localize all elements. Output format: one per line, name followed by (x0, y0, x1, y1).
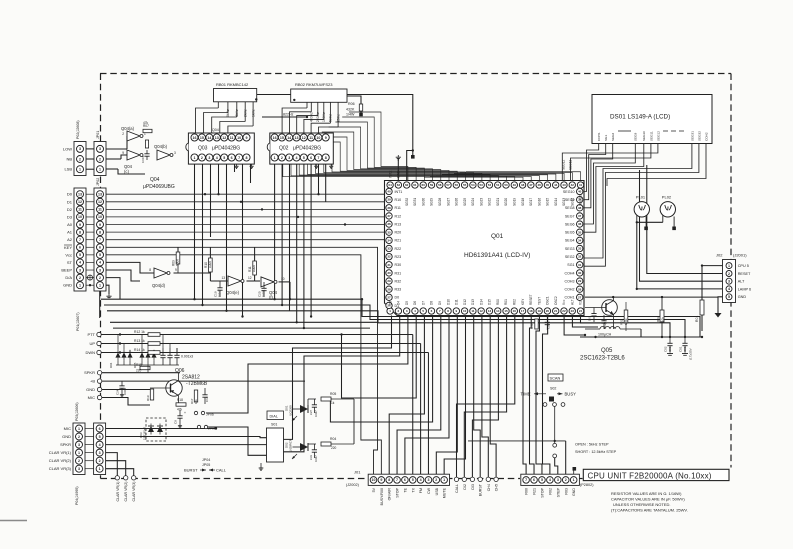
svg-text:12: 12 (480, 309, 484, 313)
svg-text:1: 1 (99, 283, 101, 287)
connector J02 (J2001) (716, 253, 747, 303)
wire J02 pin2 RESET riser (647, 165, 723, 274)
svg-text:45: 45 (546, 183, 550, 187)
svg-text:35: 35 (387, 230, 391, 234)
svg-text:DI3: DI3 (471, 484, 475, 490)
svg-text:10k: 10k (661, 317, 665, 322)
svg-text:32: 32 (578, 255, 582, 259)
resistor R05 1k (321, 392, 336, 405)
svg-text:57: 57 (446, 183, 450, 187)
svg-text:51: 51 (496, 183, 500, 187)
wire MIC row right (106, 427, 217, 429)
svg-text:D13: D13 (471, 299, 475, 305)
IC Q02 uPD4042BG (267, 133, 333, 164)
svg-text:29: 29 (387, 279, 391, 283)
svg-text:3: 3 (99, 147, 101, 151)
svg-text:1SS181x2: 1SS181x2 (143, 427, 147, 440)
svg-text:7: 7 (238, 156, 240, 160)
svg-text:J02: J02 (716, 253, 723, 258)
wire Q02 bottom pin drops (275, 161, 326, 328)
svg-text:44: 44 (554, 183, 558, 187)
wire RB01 output to INT2 node (257, 95, 415, 159)
svg-text:BURST: BURST (479, 483, 483, 496)
svg-text:+: + (184, 411, 186, 415)
svg-text:STOP: STOP (396, 487, 400, 497)
wire DS01 right pins down to Q01 COH pins (584, 144, 699, 267)
svg-text:Vcc: Vcc (65, 252, 72, 257)
svg-text:1: 1 (78, 427, 80, 431)
svg-text:D05: D05 (133, 362, 137, 368)
svg-text:BURST: BURST (184, 468, 198, 473)
label SEG12 SEG11 right top (562, 159, 573, 170)
wire LED D01 rail (308, 399, 354, 444)
svg-text:R18: R18 (177, 398, 183, 402)
svg-text:SG20: SG20 (504, 198, 508, 206)
resistor network RB01 RKMBC142 (214, 82, 258, 117)
svg-text:9: 9 (246, 136, 248, 140)
svg-text:13: 13 (78, 192, 82, 196)
svg-text:D5: D5 (405, 301, 409, 305)
svg-text:MIC: MIC (88, 395, 95, 400)
svg-text:LOW: LOW (63, 146, 72, 151)
svg-text:14: 14 (287, 136, 291, 140)
svg-text:58: 58 (438, 183, 442, 187)
svg-text:STEP: STEP (556, 487, 560, 497)
svg-text:RESISTOR VALUES ARE IN Ω. 1/16: RESISTOR VALUES ARE IN Ω. 1/16W) (611, 491, 682, 496)
svg-text:Q03: Q03 (198, 146, 208, 152)
svg-text:COH3: COH3 (565, 279, 575, 283)
resistor R07 47k (143, 121, 152, 133)
svg-text:55: 55 (463, 183, 467, 187)
svg-text:LSB: LSB (64, 167, 72, 172)
svg-text:COH2: COH2 (704, 132, 708, 141)
wire Q03 bottom pin drops (195, 161, 251, 317)
inverter Q04(f) (261, 277, 285, 300)
svg-text:ALT: ALT (738, 280, 745, 284)
connector P03 (J2606) left column (73, 402, 85, 474)
label Q04 uPD4069UBG (143, 177, 175, 190)
svg-text:100k: 100k (176, 259, 180, 266)
wire DS01 left pins down to Q01 right SEG pins (584, 144, 613, 208)
svg-text:TEST: TEST (537, 297, 541, 305)
svg-text:ON/AIR: ON/AIR (388, 488, 392, 501)
testpoint D/A row (88, 275, 93, 286)
wire below P01 (99, 291, 101, 318)
svg-text:R02: R02 (548, 488, 552, 495)
labels J01 signals (372, 487, 447, 505)
wire SPKR row (102, 372, 180, 374)
node CLAR VR(2) bottom (124, 476, 129, 502)
svg-text:100k: 100k (208, 261, 212, 268)
svg-text:CPU UNIT F2B20000A (No.10xx): CPU UNIT F2B20000A (No.10xx) (588, 471, 712, 480)
capacitor C02 0.001 (664, 337, 674, 355)
svg-text:3: 3 (99, 451, 101, 455)
node CALL (454, 477, 459, 493)
svg-text:12: 12 (302, 136, 306, 140)
svg-text:1: 1 (99, 167, 101, 171)
wire +B row (102, 380, 305, 382)
svg-text:18: 18 (529, 309, 533, 313)
svg-text:SPKR: SPKR (60, 442, 71, 447)
resistor R17 10k (190, 390, 198, 404)
svg-text:11: 11 (309, 136, 313, 140)
wire long row D (y322) (110, 321, 378, 323)
svg-text:100k: 100k (252, 265, 256, 272)
svg-text:10: 10 (463, 309, 467, 313)
svg-text:INT2: INT2 (388, 171, 392, 178)
svg-text:R13: R13 (395, 222, 402, 226)
transistor Q06 2SA812 (150, 368, 208, 404)
svg-text:R03: R03 (564, 488, 568, 495)
svg-text:GND: GND (738, 295, 747, 299)
svg-text:29: 29 (578, 279, 582, 283)
svg-text:RESET: RESET (529, 294, 533, 305)
wire J02 pin1 CPU5 with R01 (702, 266, 723, 331)
svg-text:Q04(e): Q04(e) (226, 290, 240, 295)
capacitor C16 0.01 (202, 388, 209, 404)
svg-text:R04: R04 (330, 437, 336, 441)
svg-text:2: 2 (99, 459, 101, 463)
wire JP06 link (206, 412, 240, 414)
svg-text:49: 49 (513, 183, 517, 187)
svg-text:8: 8 (79, 230, 81, 234)
svg-text:(J2001): (J2001) (733, 253, 747, 258)
labels P01 signal names (61, 192, 72, 288)
svg-text:KEY: KEY (64, 245, 72, 250)
svg-text:23: 23 (571, 309, 575, 313)
svg-text:R05: R05 (330, 392, 336, 396)
svg-text:4: 4 (216, 156, 218, 160)
capacitor C24 0.001 (116, 381, 128, 395)
wire Vcc row staircase to J01 (106, 255, 381, 474)
svg-text:13: 13 (488, 309, 492, 313)
labels J02 CPU5 RESET ALT LAMP GND (738, 264, 751, 299)
node DI3 (470, 477, 475, 489)
svg-text:30: 30 (387, 271, 391, 275)
svg-text:8: 8 (149, 268, 151, 272)
svg-text:R33: R33 (395, 288, 402, 292)
capacitor C03 0.001 (679, 337, 689, 355)
svg-text:C01: C01 (679, 346, 683, 352)
connector P2802 (521, 474, 580, 485)
wire P02 LOW NB LSB rows to Q04 gates (106, 136, 145, 174)
svg-text:D8: D8 (430, 301, 434, 305)
svg-text:48: 48 (521, 183, 525, 187)
svg-text:INT1: INT1 (395, 190, 403, 194)
svg-text:SHORT : 12.5kHz STEP: SHORT : 12.5kHz STEP (575, 450, 617, 454)
svg-text:1: 1 (274, 156, 276, 160)
svg-text:Q01: Q01 (491, 233, 504, 240)
svg-text:C02: C02 (664, 346, 668, 352)
svg-text:Q04(d): Q04(d) (152, 283, 166, 288)
svg-text:GND: GND (63, 283, 72, 288)
ground Q03 pins (234, 165, 253, 169)
svg-text:SG16: SG16 (537, 198, 541, 206)
svg-text:37: 37 (387, 214, 391, 218)
svg-text:(T):CAPACITORS ARE TANTALUM. 2: (T):CAPACITORS ARE TANTALUM. 25WV. (611, 508, 688, 513)
ground C24 (120, 393, 124, 397)
node CLAR VR(3) bottom (132, 476, 137, 502)
node CLAR VR(1) bottom (115, 476, 120, 502)
svg-text:5: 5 (99, 253, 101, 257)
svg-text:5: 5 (79, 253, 81, 257)
svg-text:42: 42 (571, 183, 575, 187)
ground J02 GND (715, 313, 722, 318)
svg-text:(f): (f) (269, 295, 274, 300)
svg-text:2: 2 (201, 156, 203, 160)
svg-text:2kHz: 2kHz (243, 109, 247, 117)
capacitor C27 0.047 (309, 399, 318, 417)
node BURST (478, 477, 483, 496)
svg-text:Q04(a): Q04(a) (121, 126, 135, 131)
svg-text:1: 1 (194, 156, 196, 160)
svg-text:CLAR VR(1): CLAR VR(1) (49, 450, 72, 455)
svg-text:52: 52 (488, 183, 492, 187)
svg-text:R21: R21 (533, 488, 537, 495)
svg-text:11: 11 (98, 208, 102, 212)
label 822Hz (283, 113, 294, 117)
svg-text:100Hz: 100Hz (322, 112, 326, 122)
lamp PL02 (660, 195, 676, 231)
svg-text:D3: D3 (67, 214, 73, 219)
svg-text:2: 2 (78, 459, 80, 463)
wire long row B (y305) (104, 305, 685, 337)
svg-text:SG15: SG15 (546, 198, 550, 206)
diode pack D03 1SS181 (dashed) (139, 418, 166, 441)
wire LED D02 rail (308, 443, 354, 445)
svg-text:0.001x3: 0.001x3 (181, 355, 193, 359)
svg-text:4: 4 (99, 261, 101, 265)
svg-text:36: 36 (578, 222, 582, 226)
jumper labels JP04 JP05 BURST CALL (184, 458, 227, 473)
svg-text:100μCH: 100μCH (598, 333, 612, 337)
svg-text:3: 3 (79, 268, 81, 272)
svg-text:Q04(b): Q04(b) (154, 144, 168, 149)
svg-text:D11: D11 (455, 299, 459, 305)
node CH5 (494, 477, 499, 491)
svg-text:31: 31 (578, 263, 582, 267)
svg-text:RESET: RESET (738, 272, 751, 276)
svg-text:43: 43 (562, 183, 566, 187)
svg-text:μPD4042BG: μPD4042BG (293, 146, 321, 152)
svg-text:SG17: SG17 (529, 198, 533, 206)
label OPEN SHORT steps (575, 443, 617, 454)
svg-text:R33: R33 (530, 323, 534, 329)
svg-text:54: 54 (471, 183, 475, 187)
svg-text:8: 8 (388, 478, 390, 482)
capacitor C28 (601, 315, 607, 329)
wire GND row to DIAL stub1 (106, 437, 267, 438)
terminal near P2802 GND (573, 467, 577, 474)
connector JP01 right column (86, 131, 106, 176)
svg-text:5V: 5V (372, 487, 376, 492)
svg-text:2: 2 (565, 478, 567, 482)
svg-text:D0: D0 (67, 192, 73, 197)
node PTT (87, 332, 101, 337)
svg-text:36: 36 (387, 222, 391, 226)
svg-text:59: 59 (430, 183, 434, 187)
svg-text:2: 2 (728, 272, 730, 276)
svg-text:R03: R03 (656, 316, 660, 322)
resistor R19 4.7k (146, 389, 154, 401)
svg-text:SG23: SG23 (479, 198, 483, 206)
svg-text:0.047: 0.047 (314, 410, 318, 417)
resistor R13 1k (134, 339, 160, 345)
jumper JP05 (197, 425, 216, 430)
svg-text:9: 9 (99, 223, 101, 227)
ground DIAL S01 (259, 466, 264, 471)
resistor network RB02 RKM7LWFS23 (291, 82, 347, 122)
svg-text:12: 12 (248, 276, 252, 280)
wire PTT row with R12 (101, 335, 413, 475)
label (P2802) (580, 483, 594, 487)
svg-text:JP05: JP05 (202, 463, 210, 467)
capacitor C20 0.001 (258, 282, 267, 297)
svg-text:R11: R11 (395, 206, 401, 210)
svg-text:56: 56 (455, 183, 459, 187)
svg-text:TE: TE (403, 487, 407, 492)
svg-text:D15: D15 (488, 299, 492, 305)
svg-text:9: 9 (79, 223, 81, 227)
svg-text:20: 20 (546, 309, 550, 313)
connector P04 (J4995) right column (75, 423, 106, 505)
svg-text:CPU 5: CPU 5 (738, 264, 749, 268)
node SPKR (84, 370, 102, 375)
svg-text:14: 14 (207, 136, 211, 140)
svg-text:BUSY: BUSY (565, 392, 577, 397)
svg-text:41: 41 (579, 183, 583, 187)
svg-text:USB: USB (435, 487, 439, 495)
svg-text:C27: C27 (309, 410, 313, 415)
svg-text:47k: 47k (143, 121, 149, 125)
svg-text:13: 13 (98, 192, 102, 196)
node MIC (88, 395, 102, 400)
svg-text:3: 3 (99, 268, 101, 272)
svg-text:SG14: SG14 (554, 198, 558, 206)
wire lamp link (636, 221, 663, 223)
svg-text:TX: TX (411, 487, 415, 492)
wire Q01 bottom pins 22-24 to Q05 area (564, 316, 602, 336)
svg-text:R21: R21 (395, 239, 402, 243)
svg-text:3: 3 (557, 478, 559, 482)
capacitor C9 electrolytic (174, 410, 187, 424)
svg-text:D14: D14 (479, 299, 483, 305)
svg-text:R23: R23 (395, 255, 402, 259)
svg-text:7: 7 (79, 238, 81, 242)
svg-text:17: 17 (521, 309, 525, 313)
svg-text:NB: NB (66, 157, 72, 162)
svg-text:46: 46 (537, 183, 541, 187)
svg-text:(c): (c) (124, 169, 129, 174)
svg-text:63: 63 (397, 183, 401, 187)
resistor R09 100k (172, 252, 180, 273)
svg-text:0.047: 0.047 (314, 455, 318, 462)
svg-text:2: 2 (281, 156, 283, 160)
svg-text:10: 10 (78, 215, 82, 219)
wire UP row with R13 (101, 344, 421, 475)
svg-text:R01: R01 (695, 316, 699, 322)
svg-text:FM: FM (419, 488, 423, 493)
wire RB01 pin drops (218, 102, 253, 126)
svg-text:62: 62 (405, 183, 409, 187)
svg-text:D04: D04 (109, 362, 113, 368)
svg-text:22: 22 (562, 309, 566, 313)
svg-text:PTT: PTT (87, 332, 95, 337)
svg-text:10: 10 (98, 215, 102, 219)
display DS01 LS149-A (LCD) (592, 95, 712, 144)
svg-text:15: 15 (504, 309, 508, 313)
svg-text:CW: CW (427, 487, 431, 494)
ground Q02 pins (314, 165, 333, 169)
svg-text:50: 50 (504, 183, 508, 187)
svg-text:C31: C31 (309, 455, 313, 460)
svg-text:OSC1: OSC1 (546, 296, 550, 305)
svg-text:P01(J2607): P01(J2607) (76, 312, 80, 331)
svg-text:7: 7 (396, 478, 398, 482)
resistor R12 1k (134, 330, 160, 336)
svg-text:D4: D4 (397, 301, 401, 305)
svg-text:SCAN: SCAN (550, 376, 561, 381)
wire long row E (y328) (113, 327, 370, 329)
capacitor C31 0.047 (309, 444, 318, 462)
svg-text:40: 40 (387, 190, 391, 194)
wire RB02 pin drops to Q02 staircase (282, 102, 338, 133)
wire Q04 gate chain rows (174, 247, 291, 299)
svg-text:V1: V1 (579, 301, 583, 305)
label LOW NB LSB (63, 146, 72, 171)
svg-text:4: 4 (728, 287, 730, 291)
svg-text:DI2: DI2 (463, 484, 467, 490)
svg-text:R12: R12 (395, 214, 402, 218)
svg-text:SPKR: SPKR (84, 370, 95, 375)
svg-text:25Hz: 25Hz (336, 114, 340, 122)
svg-text:D0: D0 (395, 296, 400, 300)
svg-text:1k: 1k (331, 401, 335, 405)
svg-text:C9: C9 (174, 420, 178, 424)
svg-text:4kHz: 4kHz (235, 109, 239, 117)
inverter Q04(d) (149, 268, 177, 288)
resistor R01 (695, 300, 704, 322)
svg-text:R06: R06 (348, 102, 355, 106)
IC Q01 HD61391A41 (385, 181, 585, 316)
svg-text:SEG31: SEG31 (690, 131, 694, 141)
svg-text:R02: R02 (620, 319, 624, 325)
svg-text:3: 3 (78, 443, 80, 447)
resistor R04 220 (321, 437, 337, 450)
inverter Q04(e) (221, 276, 251, 295)
svg-text:9: 9 (325, 136, 327, 140)
svg-text:PL02: PL02 (662, 195, 672, 200)
node UP (89, 341, 101, 346)
svg-text:GND: GND (86, 387, 95, 392)
wire BEEP row (106, 270, 140, 281)
svg-text:μPD4069UBG: μPD4069UBG (143, 184, 175, 190)
svg-text:D12: D12 (463, 299, 467, 305)
svg-text:SG30: SG30 (421, 198, 425, 206)
switch S02 SCAN (520, 374, 576, 474)
svg-text:SEG12: SEG12 (656, 131, 660, 141)
svg-text:28: 28 (387, 287, 391, 291)
svg-text:A2: A2 (67, 237, 73, 242)
connector J01 (J2002) (346, 470, 450, 488)
wire DS01 COH2 lower run (607, 144, 706, 187)
svg-text:R14 1k: R14 1k (134, 348, 145, 352)
svg-text:15: 15 (280, 136, 284, 140)
svg-text:SG1: SG1 (567, 263, 574, 267)
svg-text:TIME: TIME (520, 392, 530, 397)
svg-text:STOP: STOP (540, 487, 544, 497)
svg-text:8kHz: 8kHz (226, 109, 230, 117)
